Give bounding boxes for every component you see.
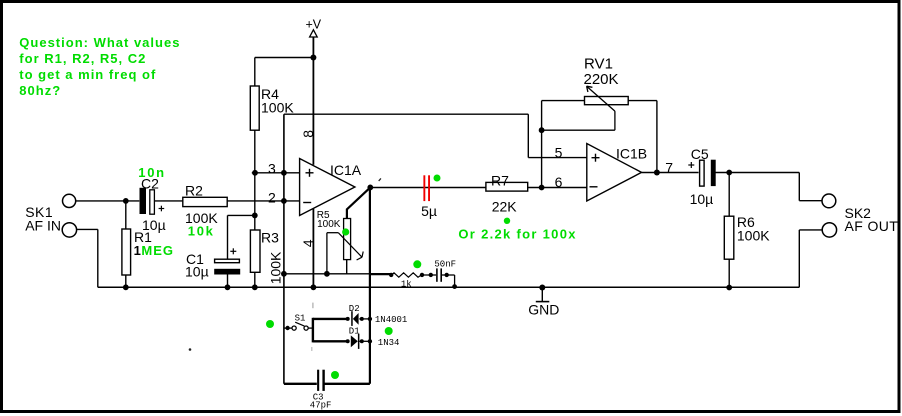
svg-text:1: 1 bbox=[134, 243, 141, 258]
svg-text:47pF: 47pF bbox=[310, 400, 332, 410]
svg-text:100K: 100K bbox=[267, 251, 283, 284]
svg-text:5: 5 bbox=[555, 145, 563, 161]
svg-text:7: 7 bbox=[665, 159, 673, 175]
svg-text:10µ: 10µ bbox=[690, 191, 714, 207]
svg-text:+V: +V bbox=[306, 18, 322, 32]
svg-text:80hz?: 80hz? bbox=[19, 83, 61, 98]
svg-text:1k: 1k bbox=[401, 279, 412, 289]
svg-text:Question: What values: Question: What values bbox=[19, 35, 180, 50]
svg-text:to get a min freq of: to get a min freq of bbox=[19, 67, 156, 82]
svg-text:3: 3 bbox=[268, 161, 276, 177]
svg-text:220K: 220K bbox=[584, 71, 619, 88]
svg-text:R7: R7 bbox=[491, 173, 509, 189]
svg-text:6: 6 bbox=[555, 174, 563, 190]
svg-text:50nF: 50nF bbox=[434, 259, 456, 269]
svg-text:4: 4 bbox=[300, 239, 316, 247]
svg-text:Or 2.2k for 100x: Or 2.2k for 100x bbox=[458, 227, 576, 242]
svg-text:C5: C5 bbox=[691, 146, 709, 162]
svg-text:100K: 100K bbox=[261, 100, 294, 116]
svg-text:MEG: MEG bbox=[141, 243, 174, 258]
svg-text:GND: GND bbox=[528, 302, 559, 318]
svg-text:100K: 100K bbox=[737, 228, 770, 244]
svg-text:AF OUT: AF OUT bbox=[845, 218, 899, 234]
svg-text:IC1B: IC1B bbox=[616, 146, 647, 162]
svg-text:22K: 22K bbox=[492, 199, 518, 215]
svg-text:2: 2 bbox=[268, 190, 276, 206]
svg-text:1N34: 1N34 bbox=[378, 338, 400, 348]
svg-text:R3: R3 bbox=[261, 230, 279, 246]
svg-text:D1: D1 bbox=[349, 327, 360, 337]
svg-text:IC1A: IC1A bbox=[330, 162, 362, 178]
svg-text:5µ: 5µ bbox=[421, 203, 437, 219]
svg-text:100K: 100K bbox=[317, 219, 341, 230]
svg-text:1N4001: 1N4001 bbox=[375, 315, 407, 325]
svg-text:8: 8 bbox=[300, 130, 316, 138]
svg-text:10µ: 10µ bbox=[185, 264, 209, 280]
svg-text:R2: R2 bbox=[185, 183, 203, 199]
svg-text:10k: 10k bbox=[188, 223, 215, 238]
svg-text:S1: S1 bbox=[295, 314, 306, 324]
svg-text:for R1, R2, R5, C2: for R1, R2, R5, C2 bbox=[19, 51, 146, 66]
svg-text:10n: 10n bbox=[138, 165, 166, 180]
svg-text:AF IN: AF IN bbox=[25, 218, 61, 234]
svg-text:D2: D2 bbox=[349, 304, 360, 314]
